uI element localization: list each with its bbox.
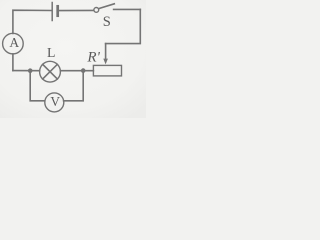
svg-text:R': R'	[86, 49, 100, 65]
svg-text:V: V	[50, 94, 60, 109]
svg-text:L: L	[47, 45, 55, 60]
svg-text:S: S	[103, 14, 111, 30]
svg-text:A: A	[9, 35, 19, 50]
